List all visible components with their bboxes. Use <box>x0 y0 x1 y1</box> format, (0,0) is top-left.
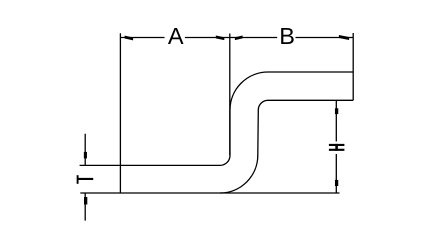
arrowhead B right <box>339 35 349 40</box>
wire T dimension line <box>84 134 86 221</box>
label T (rotated, drawn as strokes) <box>77 175 93 184</box>
wire leg bottom line extended to H dimension <box>80 192 339 194</box>
wire H dimension line <box>335 100 337 192</box>
arrowhead H bottom <box>335 180 338 186</box>
wire A left extension line <box>119 33 121 193</box>
wire B dimension line <box>230 37 353 39</box>
svg-text:A: A <box>168 23 184 49</box>
arrowhead A right <box>216 35 225 40</box>
arrowhead A left <box>125 36 134 41</box>
label H (rotated, drawn as strokes) <box>329 144 345 151</box>
wire part bottom face: lower outer bend, web right face, upper inner bend, flange bottom <box>220 100 353 193</box>
wire right edge / B right extension line <box>352 33 354 100</box>
svg-text:B: B <box>279 23 295 49</box>
wire A dimension line <box>120 37 229 39</box>
wire part top face: leg top, lower inner bend, web left face, upper outer bend, flange top <box>80 72 354 165</box>
arrowhead H top <box>335 108 338 114</box>
arrowhead T top <box>84 152 87 159</box>
arrowhead T bottom <box>84 197 87 205</box>
arrowhead B left <box>235 35 243 40</box>
wire middle extension line (A/B boundary) <box>229 34 231 156</box>
